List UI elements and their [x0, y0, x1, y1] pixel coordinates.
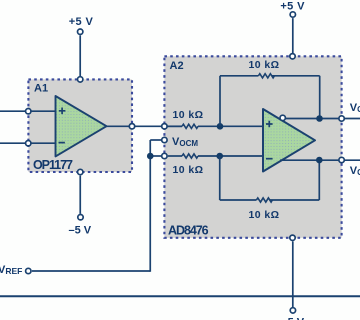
resistor R3 10k (input -): [182, 154, 198, 158]
wire feedback+ vertical left: [219, 76, 221, 127]
pin A2 OUT- (on box right edge): [339, 157, 344, 162]
junction OUT+ feedback node: [316, 115, 323, 122]
svg-text:10 kΩ: 10 kΩ: [248, 59, 279, 71]
junction VREF/IN- node: [147, 153, 154, 160]
pin A2 VOCM (on box left edge): [162, 137, 167, 142]
A2 minus marker: [266, 158, 273, 160]
terminal bottom supply: [290, 308, 295, 313]
pin A1 OUT (on box right edge): [129, 124, 134, 129]
svg-text:OP1177: OP1177: [33, 158, 73, 172]
pin A2 +Vs (on box top edge): [290, 54, 295, 59]
svg-text:+5 V: +5 V: [69, 16, 94, 28]
junction IN+ node: [217, 123, 224, 130]
wire R3 to op-amp -: [198, 155, 263, 157]
pin A2 -Vs (on box bottom edge): [290, 235, 295, 240]
wire feedback- vertical left: [219, 156, 221, 200]
terminal +5V (A2): [290, 12, 295, 17]
terminal +5V (A1): [78, 29, 83, 34]
wire VREF vertical to VOCM: [149, 140, 151, 272]
wire A1 noninverting input: [0, 110, 56, 112]
svg-text:10 kΩ: 10 kΩ: [248, 209, 279, 221]
A2 plus marker: [266, 121, 273, 128]
A1 minus marker: [59, 142, 65, 144]
wire VREF horizontal: [32, 270, 150, 272]
resistor R4 10k (feedback -): [256, 198, 272, 202]
svg-text:10 kΩ: 10 kΩ: [172, 109, 203, 121]
wire VOCM stub: [150, 139, 162, 141]
wire A2 bottom supply: [292, 241, 294, 307]
pin A2 IN+ (on box left edge): [162, 124, 167, 129]
terminal VREF: [26, 268, 31, 273]
svg-text:VREF: VREF: [0, 264, 22, 276]
pin A1 V+ (on box top edge): [78, 77, 83, 82]
wire R1 to op-amp +: [198, 125, 263, 127]
wire A1 to -5V: [79, 176, 81, 214]
wire IN- stub: [150, 155, 162, 157]
op-amp A1 (OP1177 triangle): [56, 96, 107, 156]
wire feedback- vertical right: [318, 160, 320, 200]
A1 plus marker: [59, 108, 66, 115]
block A2 boundary (dashed box): [164, 56, 341, 238]
pin A2 OUT+ (on box right edge): [339, 116, 344, 121]
pin A1 +IN (on box left edge): [26, 109, 31, 114]
op-amp A2 (AD8476 triangle): [263, 109, 315, 172]
junction IN- node: [216, 153, 223, 160]
pin A2 IN- (on box left edge): [162, 153, 167, 158]
wire IN+ to R1: [168, 125, 182, 127]
pin A2 OUT+ (on triangle edge): [280, 115, 285, 120]
svg-text:+5 V: +5 V: [280, 0, 305, 12]
wire IN- to R3: [168, 155, 182, 157]
resistor R2 10k (feedback +): [258, 74, 274, 78]
wire A2 output-: [280, 159, 360, 161]
block A1 boundary (dashed box): [28, 79, 132, 172]
wire A1 output to A2 input: [107, 125, 183, 127]
wire feedback- bottom rail: [220, 199, 320, 201]
svg-text:A2: A2: [170, 60, 184, 72]
wire ground rail (full width): [0, 295, 360, 297]
svg-text:10 kΩ: 10 kΩ: [172, 164, 203, 176]
junction OUT- feedback node: [316, 157, 323, 164]
resistor R1 10k (input +): [182, 124, 198, 128]
wire +5V to A2 top: [292, 18, 294, 56]
pin A1 -IN (on box left edge): [26, 141, 31, 146]
svg-text:A1: A1: [34, 83, 48, 95]
svg-text:–5 V: –5 V: [68, 225, 91, 237]
svg-text:AD8476: AD8476: [168, 223, 209, 237]
terminal -5V (A1): [78, 215, 83, 220]
wire A1 inverting input: [0, 142, 56, 144]
svg-text:–5 V: –5 V: [281, 316, 304, 320]
wire feedback+ top rail: [220, 75, 320, 77]
pin A1 V- (on box bottom edge): [78, 169, 83, 174]
wire +5V to A1 top: [79, 35, 81, 79]
wire feedback+ vertical right: [319, 76, 321, 119]
wire A2 output+: [282, 118, 360, 120]
